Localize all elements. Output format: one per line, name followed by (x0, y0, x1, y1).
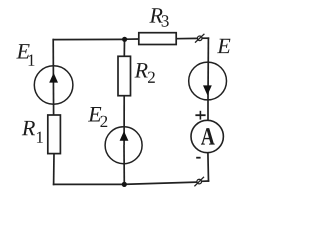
wire top-left horizontal (53, 38, 125, 40)
wire middle vertical junction to R2 (123, 39, 125, 57)
label R3 (149, 8, 168, 27)
wire right vertical top segment (207, 37, 209, 100)
wire middle vertical E2 to bottom junction (123, 145, 125, 185)
label R2 (135, 63, 155, 83)
resistor R1 (48, 115, 61, 154)
wire bottom junction to bottom terminal (124, 182, 196, 184)
wire right vertical E to ammeter (207, 100, 209, 121)
source E1 (34, 66, 73, 105)
resistor R3 (139, 33, 176, 45)
junction top (122, 37, 127, 42)
source E2 (105, 127, 142, 164)
resistor R2 (118, 56, 131, 95)
label E2 (88, 107, 107, 127)
wire right vertical ammeter to corner (207, 153, 210, 182)
terminal top (195, 34, 204, 43)
wire left vertical through E1 (52, 39, 54, 116)
terminal bottom (194, 177, 204, 187)
label E1 (16, 44, 34, 66)
wire top terminal to right corner (202, 37, 210, 39)
label R1 (22, 121, 43, 143)
wire left vertical R1 to bottom (53, 153, 55, 185)
label E (217, 39, 230, 53)
source E (189, 62, 227, 100)
wire middle vertical R2 to E2 (123, 95, 125, 145)
minus sign (196, 157, 200, 159)
wire R3 to top terminal (176, 37, 198, 39)
wire bottom left horizontal (53, 183, 125, 185)
plus sign (195, 111, 205, 120)
ammeter A (191, 120, 223, 152)
wire bottom terminal to right corner (201, 180, 209, 182)
junction bottom (122, 182, 127, 187)
wire top junction to R3 (125, 38, 140, 40)
